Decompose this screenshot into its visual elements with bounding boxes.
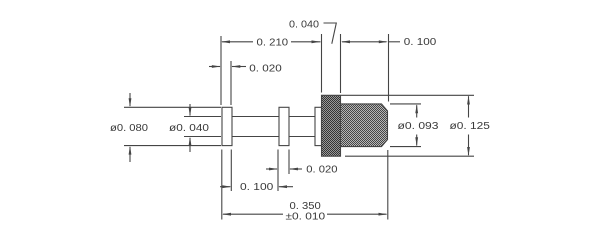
svg-text:ø0. 040: ø0. 040 (169, 123, 210, 134)
svg-text:±0. 010: ±0. 010 (286, 211, 326, 222)
svg-text:0. 100: 0. 100 (404, 37, 437, 48)
svg-text:0. 210: 0. 210 (257, 38, 289, 49)
svg-text:ø0. 093: ø0. 093 (398, 121, 440, 132)
svg-text:ø0. 080: ø0. 080 (110, 123, 149, 134)
svg-text:0. 100: 0. 100 (240, 182, 274, 193)
svg-text:0. 020: 0. 020 (249, 64, 282, 75)
svg-text:0. 040: 0. 040 (289, 20, 320, 31)
svg-text:0. 020: 0. 020 (306, 165, 338, 176)
svg-text:ø0. 125: ø0. 125 (450, 121, 491, 132)
